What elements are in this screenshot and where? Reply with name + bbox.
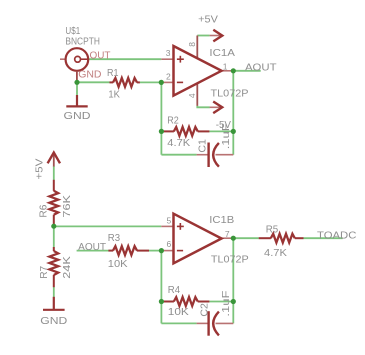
- svg-text:AOUT: AOUT: [78, 241, 107, 253]
- svg-text:BNCPTH: BNCPTH: [65, 35, 100, 47]
- svg-text:+5V: +5V: [33, 159, 45, 180]
- svg-text:R5: R5: [266, 223, 279, 235]
- svg-text:IC1A: IC1A: [209, 47, 235, 59]
- svg-text:IC1B: IC1B: [209, 214, 234, 226]
- svg-text:TOADC: TOADC: [317, 230, 357, 242]
- svg-text:3: 3: [166, 48, 171, 58]
- svg-text:OUT: OUT: [90, 50, 112, 62]
- svg-text:R6: R6: [38, 204, 50, 217]
- svg-text:R3: R3: [108, 232, 120, 244]
- svg-text:24K: 24K: [61, 256, 73, 279]
- svg-text:7: 7: [225, 229, 230, 239]
- svg-text:GND: GND: [40, 315, 67, 327]
- svg-text:AOUT: AOUT: [245, 61, 277, 73]
- svg-text:6: 6: [167, 239, 172, 249]
- svg-text:GND: GND: [64, 110, 91, 122]
- svg-text:76K: 76K: [61, 195, 73, 218]
- svg-text:4: 4: [187, 93, 197, 98]
- svg-text:C2: C2: [199, 303, 211, 317]
- svg-text:10K: 10K: [168, 306, 189, 318]
- svg-text:5: 5: [167, 216, 172, 226]
- svg-text:GND: GND: [78, 68, 102, 80]
- svg-text:TL072P: TL072P: [211, 88, 249, 100]
- svg-text:4.7K: 4.7K: [264, 247, 287, 259]
- svg-text:.1uF: .1uF: [220, 291, 232, 317]
- svg-text:1K: 1K: [108, 89, 120, 101]
- svg-text:+5V: +5V: [198, 14, 218, 26]
- svg-text:TL072P: TL072P: [211, 253, 249, 265]
- svg-text:1: 1: [223, 61, 228, 71]
- svg-text:.1uF: .1uF: [220, 123, 232, 149]
- svg-text:C1: C1: [197, 139, 209, 153]
- svg-text:R7: R7: [38, 266, 50, 279]
- svg-text:2: 2: [166, 72, 171, 82]
- svg-text:R1: R1: [107, 67, 119, 79]
- svg-text:4.7K: 4.7K: [167, 137, 190, 149]
- svg-text:8: 8: [187, 42, 197, 47]
- svg-text:R4: R4: [168, 284, 180, 296]
- svg-text:R2: R2: [167, 114, 179, 126]
- svg-text:10K: 10K: [108, 258, 128, 270]
